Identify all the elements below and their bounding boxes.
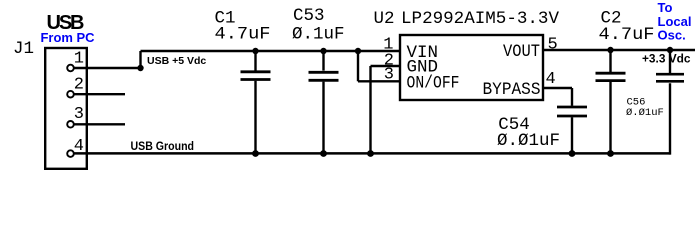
- svg-text:Ø.1uF: Ø.1uF: [292, 25, 345, 45]
- wire ON/OFF riser: [357, 51, 359, 81]
- svg-text:USB Ground: USB Ground: [131, 139, 195, 153]
- J1 pin 1: [67, 65, 74, 72]
- svg-text:U2: U2: [374, 9, 395, 29]
- wire riser to +5V rail: [139, 51, 141, 68]
- svg-text:From PC: From PC: [41, 30, 96, 45]
- node C53 top: [320, 48, 326, 54]
- capacitor C53: [309, 51, 339, 154]
- wire VOUT rail: [543, 49, 695, 51]
- wire J1 pin3 stub: [75, 123, 126, 125]
- svg-text:VOUT: VOUT: [503, 42, 540, 62]
- svg-text:LP2992AIM5-3.3V: LP2992AIM5-3.3V: [401, 9, 559, 29]
- svg-text:To: To: [658, 0, 673, 15]
- capacitor C1: [241, 51, 271, 154]
- node VIN/ONOFF junction: [355, 48, 361, 54]
- node C1 bottom: [252, 150, 259, 157]
- capacitor C54: [557, 88, 587, 154]
- op-amp U2 body: [400, 35, 543, 100]
- wire GND pin2: [371, 65, 401, 67]
- svg-text:BYPASS: BYPASS: [483, 80, 541, 100]
- svg-text:2: 2: [74, 76, 84, 95]
- capacitor C56: [656, 50, 684, 155]
- connector J1 body: [45, 48, 87, 169]
- wire J1 pin2 stub: [75, 93, 126, 95]
- svg-text:Ø.Ø1uF: Ø.Ø1uF: [497, 131, 560, 151]
- svg-text:3: 3: [74, 105, 84, 124]
- svg-text:+3.3 Vdc: +3.3 Vdc: [642, 52, 691, 66]
- svg-text:1: 1: [74, 49, 84, 68]
- wire pin1 to riser: [75, 67, 141, 69]
- wire +5V rail: [141, 50, 401, 52]
- wire BYPASS pin4: [543, 87, 572, 89]
- svg-text:4: 4: [546, 70, 556, 89]
- node C2 top: [607, 47, 613, 53]
- node at wire corner: [137, 65, 143, 71]
- node C56 top: [667, 47, 673, 53]
- node GND to ground rail: [367, 150, 374, 157]
- svg-text:4.7uF: 4.7uF: [215, 25, 271, 45]
- wire ground rail: [75, 152, 671, 155]
- capacitor C2: [596, 50, 626, 154]
- svg-text:ON/OFF: ON/OFF: [407, 74, 460, 94]
- node C2 bottom: [607, 150, 614, 157]
- J1 pin 4: [67, 150, 74, 157]
- J1 pin 2: [67, 91, 74, 98]
- svg-text:C53: C53: [293, 6, 325, 26]
- wire GND drop: [369, 66, 371, 154]
- svg-text:5: 5: [548, 35, 558, 54]
- J1 pin 3: [67, 121, 74, 128]
- wire ON/OFF pin3: [358, 80, 400, 82]
- node C54 bottom: [569, 150, 576, 157]
- svg-text:3: 3: [384, 66, 394, 85]
- svg-text:Ø.Ø1uF: Ø.Ø1uF: [626, 107, 664, 119]
- svg-text:Osc.: Osc.: [658, 28, 686, 43]
- svg-text:J1: J1: [13, 39, 34, 59]
- svg-text:4.7uF: 4.7uF: [599, 25, 655, 45]
- node C53 bottom: [320, 150, 327, 157]
- svg-text:USB +5 Vdc: USB +5 Vdc: [147, 55, 206, 67]
- node C1 top: [252, 48, 258, 54]
